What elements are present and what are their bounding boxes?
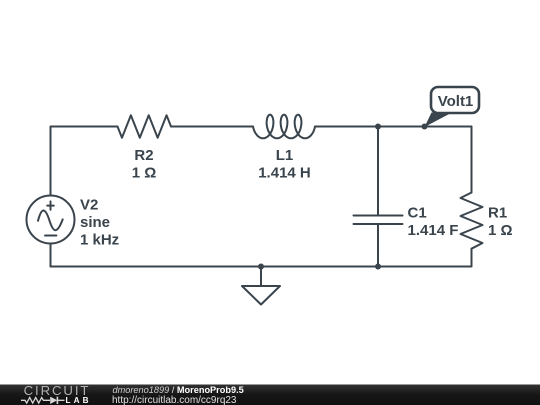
svg-text:1 kHz: 1 kHz xyxy=(80,232,119,249)
node dot Volt1 xyxy=(422,124,428,130)
capacitor C1 top lead xyxy=(377,127,379,216)
node dot ground xyxy=(258,264,264,270)
wire between R2 and L1 xyxy=(171,126,253,128)
capacitor C1 bottom lead xyxy=(377,224,379,267)
inductor L1 xyxy=(253,115,315,139)
logo diode xyxy=(50,397,57,404)
wire V2 bottom lead xyxy=(50,244,52,267)
capacitor C1 plates xyxy=(354,216,403,225)
volt flag pointer xyxy=(425,113,453,128)
ground triangle xyxy=(242,286,280,305)
node dot top C1 xyxy=(375,124,381,130)
svg-text:sine: sine xyxy=(80,214,110,231)
svg-text:R2: R2 xyxy=(134,147,153,164)
svg-text:V2: V2 xyxy=(80,196,98,213)
svg-text:1.414 F: 1.414 F xyxy=(408,222,459,239)
svg-text:L1: L1 xyxy=(276,147,294,164)
wire top rail left segment xyxy=(51,127,118,196)
svg-text:dmoreno1899 / MorenoProb9.5: dmoreno1899 / MorenoProb9.5 xyxy=(113,385,244,395)
svg-text:http://circuitlab.com/cc9rq23: http://circuitlab.com/cc9rq23 xyxy=(112,395,237,405)
V2 plus sign xyxy=(47,201,54,209)
svg-text:R1: R1 xyxy=(488,204,507,221)
svg-text:C1: C1 xyxy=(408,204,427,221)
logo resistor zigzag xyxy=(21,398,50,404)
node dot bottom C1 xyxy=(375,264,381,270)
volt flag Volt1 box xyxy=(431,87,479,113)
ground stem xyxy=(260,267,262,287)
voltage source V2 circle xyxy=(27,196,75,244)
svg-text:Volt1: Volt1 xyxy=(438,93,474,110)
resistor R1 xyxy=(461,193,483,249)
svg-text:LAB: LAB xyxy=(66,396,92,405)
svg-text:1 Ω: 1 Ω xyxy=(132,165,157,182)
wire L1 to top-right corner xyxy=(315,126,472,128)
svg-text:1.414 H: 1.414 H xyxy=(258,165,311,182)
V2 sine wave xyxy=(38,211,63,231)
resistor R2 xyxy=(118,115,172,137)
wire right side down to R1 xyxy=(471,127,473,193)
wire R1 to bottom rail xyxy=(51,249,472,267)
svg-text:1 Ω: 1 Ω xyxy=(488,222,513,239)
footer bar xyxy=(0,385,540,405)
V2 minus sign xyxy=(45,235,56,237)
